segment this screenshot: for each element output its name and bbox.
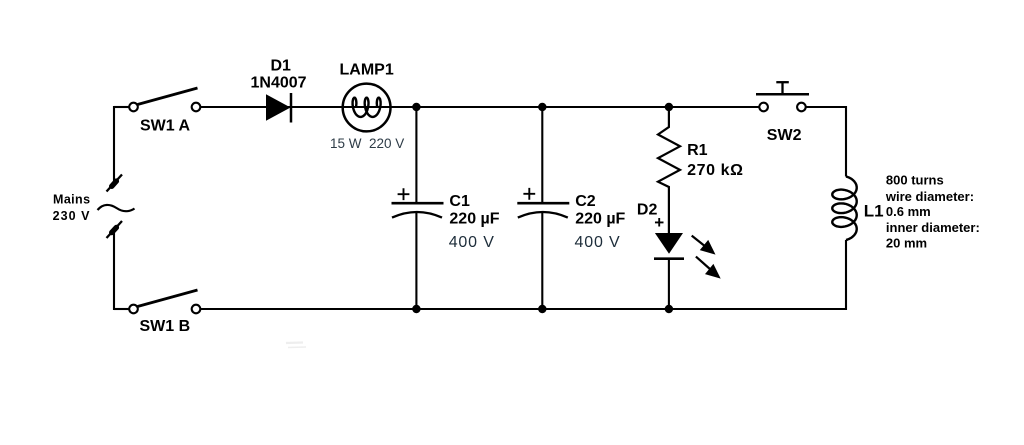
svg-text:270 kΩ: 270 kΩ (687, 162, 743, 179)
resistor R1 (658, 107, 680, 233)
pushbutton SW2 (756, 82, 809, 111)
svg-text:SW2: SW2 (767, 127, 802, 144)
svg-text:220 µF: 220 µF (449, 211, 499, 228)
wire top rail from SW1A to SW2 (201, 106, 759, 108)
wire bottom-left stub to SW1B (114, 308, 129, 310)
svg-text:C2: C2 (575, 193, 596, 210)
mains break mark bottom (107, 221, 123, 238)
capacitor C1 (392, 107, 444, 309)
junction dot: top rail / C1 (412, 103, 420, 111)
mains tilde (98, 205, 135, 211)
wire left rail lower segment (113, 229, 115, 310)
svg-text:LAMP1: LAMP1 (340, 62, 394, 79)
wire right rail upper (807, 107, 847, 177)
junction dot: bottom rail / C1 (412, 305, 420, 313)
svg-text:wire diameter:: wire diameter: (885, 189, 974, 204)
diode D1 (266, 93, 291, 123)
svg-text:SW1 B: SW1 B (140, 318, 191, 335)
junction dot: bottom rail / D2 (665, 305, 673, 313)
svg-text:1N4007: 1N4007 (251, 75, 307, 92)
svg-text:SW1 A: SW1 A (140, 118, 191, 135)
svg-text:230 V: 230 V (53, 209, 91, 223)
junction dot: top rail / C2 (538, 103, 546, 111)
wire top-left stub (114, 106, 129, 108)
switch SW1 A (129, 88, 200, 111)
wire left rail upper segment (113, 106, 115, 185)
LED D2 (654, 233, 684, 309)
wire bottom rail (201, 240, 846, 309)
svg-text:15 W 220 V: 15 W 220 V (330, 136, 404, 151)
svg-text:+: + (654, 213, 664, 232)
svg-text:R1: R1 (687, 142, 708, 159)
svg-text:D1: D1 (271, 58, 292, 75)
svg-text:220 µF: 220 µF (575, 211, 625, 228)
junction dot: top rail / R1 (665, 103, 673, 111)
LED arrow 2 (696, 257, 721, 279)
svg-text:800 turns: 800 turns (886, 173, 944, 188)
svg-text:400 V: 400 V (575, 234, 621, 251)
inductor L1 (832, 177, 856, 241)
junction dot: bottom rail / C2 (538, 305, 546, 313)
LED arrow 1 (692, 236, 716, 255)
svg-text:20 mm: 20 mm (886, 236, 927, 251)
svg-text:C1: C1 (449, 193, 470, 210)
svg-text:inner diameter:: inner diameter: (886, 220, 980, 235)
svg-text:L1: L1 (864, 202, 884, 221)
svg-text:400 V: 400 V (449, 234, 495, 251)
svg-text:0.6 mm: 0.6 mm (886, 204, 931, 219)
svg-text:Mains: Mains (53, 193, 90, 207)
lamp LAMP1 (343, 84, 391, 132)
mains break mark top (107, 175, 123, 192)
capacitor C2 (517, 107, 569, 309)
switch SW1 B (129, 290, 200, 313)
